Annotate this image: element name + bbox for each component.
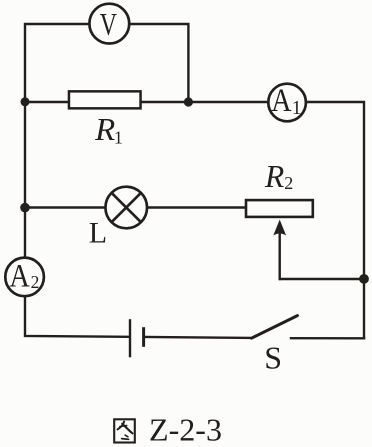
svg-text:R: R: [264, 158, 285, 194]
svg-text:L: L: [89, 216, 107, 249]
svg-text:V: V: [100, 6, 117, 42]
svg-text:2: 2: [284, 173, 293, 193]
svg-text:2: 2: [31, 272, 40, 292]
svg-text:R: R: [94, 111, 116, 147]
svg-text:1: 1: [114, 128, 123, 148]
svg-text:A: A: [9, 258, 30, 294]
svg-text:S: S: [264, 340, 282, 376]
svg-text:Z-2-3: Z-2-3: [149, 412, 222, 447]
svg-text:A: A: [271, 83, 292, 119]
svg-text:1: 1: [292, 98, 302, 119]
